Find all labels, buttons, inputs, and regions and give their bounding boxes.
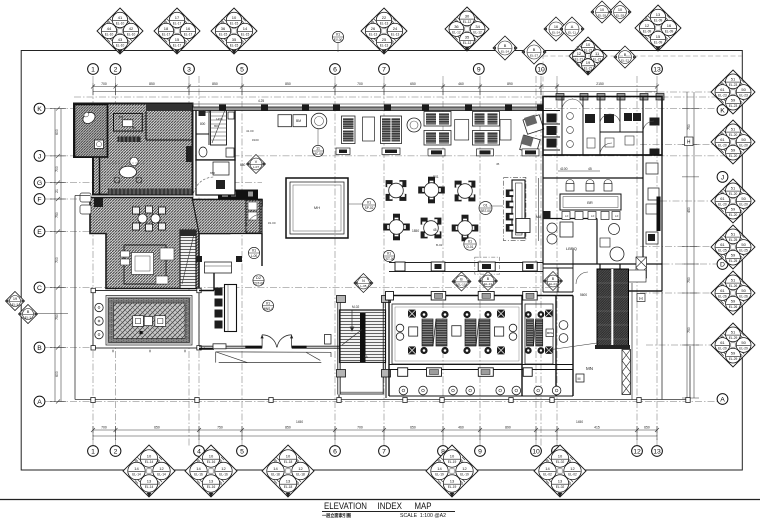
svg-text:EL-01: EL-01 [549,282,557,286]
extra small annotations [210,117,500,247]
svg-text:650: 650 [210,171,215,175]
svg-text:EL-10: EL-10 [127,32,136,36]
svg-text:EL-29: EL-29 [729,336,738,340]
svg-text:61: 61 [720,196,725,201]
pool room columns [91,288,201,350]
hall north wall mullions [219,105,543,112]
svg-text:13: 13 [286,479,291,484]
svg-text:EL-09: EL-09 [654,18,663,22]
svg-text:B: B [504,44,507,48]
svg-text:12: 12 [577,51,582,56]
svg-text:11: 11 [316,146,320,151]
svg-text:EL-24: EL-24 [552,30,560,34]
svg-text:EL-14: EL-14 [145,485,154,489]
window seat group west [278,113,327,129]
right wing walls [600,264,662,291]
svg-text:51: 51 [731,330,736,335]
svg-text:EL-18: EL-18 [284,485,293,489]
svg-text:EL-15: EL-15 [230,43,239,47]
left marker leader [37,313,68,315]
svg-text:18: 18 [164,26,169,31]
svg-text:EL-21: EL-21 [593,57,602,61]
svg-text:EL-02: EL-02 [568,472,577,476]
cafe table at 431,228 [421,218,442,239]
suite mid room [196,160,235,195]
svg-text:36: 36 [454,24,459,29]
pool room outer wall [93,291,199,349]
svg-text:EL-13: EL-13 [380,21,389,25]
marker EY-00 leader [337,43,339,52]
svg-text:750: 750 [687,327,691,333]
svg-text:EL-16: EL-16 [219,472,228,476]
svg-text:L-00: L-00 [251,254,258,258]
marker SBT-00 cafe [479,202,492,215]
title block separator line [0,499,760,501]
svg-text:51: 51 [731,232,736,237]
H box markers [637,137,693,302]
svg-text:17: 17 [175,15,180,20]
hall table dark west [382,148,400,155]
svg-text:1450: 1450 [203,110,210,114]
svg-text:59: 59 [731,207,736,212]
meeting west casing line [538,178,540,241]
svg-text:N: N [362,279,365,283]
svg-text:LF: LF [615,214,619,218]
grid bubble 5 top [237,64,248,75]
svg-text:600: 600 [55,371,59,377]
svg-text:700: 700 [101,426,107,430]
marker CST-00 lobby [253,275,264,286]
svg-text:12: 12 [570,466,575,471]
svg-text:EL-28: EL-28 [598,13,606,17]
bar counter [512,180,525,238]
grid bubble E left [34,226,45,237]
svg-text:14: 14 [273,466,278,471]
svg-text:ELEVATION: ELEVATION [324,501,367,511]
restroom toilets mid [585,113,641,123]
svg-text:EL-10: EL-10 [116,43,125,47]
svg-text:INDEX: INDEX [378,501,403,511]
svg-text:800: 800 [214,124,219,128]
svg-text:EL-17: EL-17 [162,32,171,36]
svg-text:460: 460 [458,426,464,430]
svg-text:41: 41 [118,15,123,20]
svg-text:EL-2: EL-2 [25,315,32,319]
marker EL-27 top [522,40,546,64]
lounge vertical sofas west [336,116,421,155]
svg-text:EL-21: EL-21 [575,57,584,61]
svg-text:EL-17: EL-17 [173,21,182,25]
svg-text:D-01: D-01 [467,245,474,249]
svg-text:6: 6 [333,449,337,456]
svg-text:MPE: MPE [547,331,554,335]
svg-text:59: 59 [731,351,736,356]
grid bubble D right [717,259,728,270]
MA cabinet [543,211,551,219]
svg-text:850: 850 [285,82,291,86]
svg-text:14: 14 [545,466,550,471]
marker EL-28a top [591,1,613,23]
svg-text:890: 890 [507,82,513,86]
svg-text:13: 13 [450,479,455,484]
svg-text:1450: 1450 [296,420,303,424]
svg-text:EL-20: EL-20 [729,154,738,158]
terrace lattice small [636,257,647,278]
svg-text:H: H [687,140,691,146]
svg-text:EL-29: EL-29 [739,346,748,350]
svg-text:15: 15 [175,37,180,42]
svg-text:B: B [624,53,627,57]
svg-text:700: 700 [55,257,59,263]
svg-text:45: 45 [496,162,500,166]
svg-text:WNS-0: WNS-0 [263,307,273,311]
west plaza edge [75,196,90,400]
svg-text:K: K [37,106,42,113]
cluster EL-19 bottom4 [426,445,478,497]
svg-text:EL-15: EL-15 [241,32,250,36]
svg-text:61: 61 [720,137,725,142]
bar stools [506,190,514,232]
svg-text:K: K [720,108,725,115]
svg-text:EL-22: EL-22 [621,58,629,62]
svg-text:EL-27: EL-27 [530,53,538,57]
svg-text:750: 750 [55,212,59,218]
svg-text:26: 26 [371,26,376,31]
svg-text:B-02: B-02 [436,243,443,247]
grid bubble 11 bottom [552,446,563,457]
svg-text:4: 4 [197,449,201,456]
marker SP-02 square [363,199,376,212]
cluster EL-20 right2 [711,120,755,164]
svg-text:EL-23: EL-23 [729,83,738,87]
svg-text:EL-26: EL-26 [739,294,748,298]
marker L-05 lobby north [354,274,373,293]
svg-text:01: 01 [367,200,371,205]
grid bubble 7 top [379,64,390,75]
svg-text:12: 12 [221,466,226,471]
svg-text:14: 14 [437,466,442,471]
svg-text:61: 61 [720,87,725,92]
svg-text:19: 19 [586,60,591,65]
right wing lower room [600,238,610,247]
cluster EL-10 top1 [97,8,143,54]
svg-text:SBT-00: SBT-00 [480,209,491,213]
svg-text:EL-13: EL-13 [380,43,389,47]
svg-text:3: 3 [187,67,191,74]
grid bubble J left [34,151,45,162]
svg-text:EL-12: EL-12 [473,30,482,34]
svg-text:850: 850 [149,82,155,86]
suite dining set [133,206,166,231]
svg-text:LF: LF [591,214,595,218]
svg-text:B01: B01 [433,175,439,179]
svg-text:15: 15 [656,34,661,39]
svg-text:415: 415 [594,426,600,430]
banquet white tables [409,326,504,336]
meeting chairs bottom [562,212,620,220]
feature square carpet [286,178,348,238]
svg-text:EL-23: EL-23 [729,104,738,108]
svg-text:650: 650 [644,426,650,430]
svg-text:B: B [533,48,536,52]
grid bubble C left [34,282,45,293]
svg-text:J: J [721,174,724,181]
grid bubble A right [717,394,728,405]
svg-text:CST-00: CST-00 [384,257,395,261]
site boundary line south [75,291,690,400]
pool herringbone carpet [114,303,186,339]
svg-text:50: 50 [741,288,746,293]
svg-text:EL-25: EL-25 [739,248,748,252]
stair well walls [338,302,386,395]
cluster EL-13 top4 [361,8,407,54]
cluster EL-20 right3 [711,179,755,223]
pool curtain ticks [113,350,185,353]
lattice column below pavilion [622,350,631,395]
svg-text:CST-00: CST-00 [253,282,264,286]
svg-text:A: A [571,25,574,29]
grid bubble 13 bottom [652,446,663,457]
hall door arc west [246,214,262,229]
svg-text:EL-09: EL-09 [654,40,663,44]
grid bubble G left [34,177,45,188]
suite lower sofa [160,248,174,260]
suite carpet border band [108,189,192,195]
svg-text:EL-11: EL-11 [568,30,576,34]
suite wall spine [100,105,108,196]
grid bubble 10 top [536,64,547,75]
svg-text:SCALE 1:100 @A2: SCALE 1:100 @A2 [400,513,446,519]
svg-text:EL-28: EL-28 [616,13,624,17]
hall north wall [193,103,544,105]
svg-text:01: 01 [336,32,340,37]
marker L-07 suite corridor [247,155,266,174]
terrace chairs row [399,386,561,395]
svg-text:750: 750 [217,426,223,430]
cluster EL-15 top3 [211,8,257,54]
pool dark spot [140,331,143,334]
svg-text:700: 700 [357,82,363,86]
svg-text:45: 45 [588,167,592,171]
grid bubble 8 bottom [438,446,449,457]
svg-text:MA: MA [536,215,542,219]
svg-text:4100: 4100 [560,167,568,171]
grid bubble 13 top [652,64,663,75]
svg-text:10: 10 [286,454,291,459]
svg-text:9: 9 [478,449,482,456]
svg-text:51: 51 [731,186,736,191]
marker WNS-0 lobby [262,300,273,311]
drawing border frame [21,51,742,471]
svg-text:25: 25 [382,37,387,42]
svg-text:59: 59 [731,299,736,304]
dark pavilion twin block [595,269,630,349]
svg-text:1: 1 [91,449,95,456]
svg-text:16: 16 [554,25,558,29]
restroom basins [567,113,634,148]
svg-text:2: 2 [114,67,118,74]
cluster EL-18 bottom3 [262,445,314,497]
svg-text:MH: MH [314,205,320,210]
svg-text:16: 16 [186,26,191,31]
grid bubble 10 bottom [531,446,542,457]
svg-text:10: 10 [147,454,152,459]
svg-text:10: 10 [450,454,455,459]
reception desk [215,285,237,332]
svg-text:EL-16: EL-16 [207,460,216,464]
svg-text:SP-02: SP-02 [365,206,374,210]
svg-text:35: 35 [232,37,237,42]
svg-text:EL-19: EL-19 [460,472,469,476]
lobby south wall with entrance [199,346,339,348]
svg-text:450: 450 [687,207,691,213]
svg-text:EL-16: EL-16 [194,472,203,476]
meeting table [560,194,621,210]
svg-text:19: 19 [13,297,17,301]
pantry right cell [246,200,260,233]
marker EY-00 top [332,31,343,42]
svg-text:EL-18: EL-18 [296,472,305,476]
svg-text:D2: D2 [256,275,261,280]
svg-text:LBRQ: LBRQ [566,246,577,251]
restroom door arcs [562,99,654,155]
suite bench [118,137,141,143]
suite lower bedroom [121,245,169,284]
svg-text:L-05: L-05 [360,284,366,288]
right wing bottom rooms [600,269,662,327]
banquet sofa group mid [463,311,491,354]
svg-text:2: 2 [114,449,118,456]
svg-text:1850: 1850 [412,229,419,233]
svg-text:59: 59 [731,98,736,103]
suite inner partition walls [108,111,192,195]
marker EL-22 top [614,46,636,68]
banquet sofa group west [420,311,448,354]
svg-text:EL-25: EL-25 [718,248,727,252]
svg-text:EL-20: EL-20 [718,202,727,206]
svg-text:50: 50 [741,242,746,247]
svg-text:EL-17: EL-17 [173,43,182,47]
svg-text:1: 1 [91,67,95,74]
svg-text:5: 5 [240,67,244,74]
cluster EL-12 top5 [445,7,489,51]
svg-text:14: 14 [243,26,248,31]
svg-text:EL-25: EL-25 [729,238,738,242]
svg-text:41.00: 41.00 [246,129,254,133]
svg-text:10: 10 [558,454,563,459]
svg-text:59: 59 [731,253,736,258]
meeting room walls [543,97,662,265]
svg-text:50: 50 [741,340,746,345]
svg-text:BR: BR [587,200,593,205]
svg-text:#100: #100 [252,138,259,142]
svg-text:14: 14 [134,466,139,471]
svg-text:2150: 2150 [596,82,604,86]
svg-text:EL-20: EL-20 [739,202,748,206]
svg-text:12: 12 [633,449,641,456]
grid bubble K left [34,103,45,114]
svg-text:12: 12 [298,466,303,471]
cluster EL-02 bottom5 [534,445,586,497]
pool white inset blocks [133,316,166,327]
marker EL-24b top [544,17,568,41]
marker EL-2 left b [19,305,38,324]
svg-text:34: 34 [475,24,480,29]
svg-text:4.25: 4.25 [258,99,264,103]
reception bench upper [196,256,242,273]
banquet private room border [525,304,553,364]
cluster EL-26 right5 [711,271,755,315]
cluster EL-17 top2 [154,8,200,54]
pool brick border [109,298,190,343]
svg-text:01: 01 [483,203,487,208]
svg-text:800: 800 [200,122,206,126]
lobby walls [199,234,262,350]
svg-text:EL-19: EL-19 [448,460,457,464]
svg-text:EL-09: EL-09 [643,29,652,33]
svg-text:7: 7 [382,67,386,74]
banquet corner card tables [408,310,553,355]
svg-text:EL-18: EL-18 [271,472,280,476]
cluster EL-09 top7 [635,5,681,51]
svg-text:650: 650 [410,82,416,86]
svg-text:EL-15: EL-15 [230,21,239,25]
terrace circles west of pavilion [559,321,568,343]
svg-text:850: 850 [212,82,218,86]
svg-text:10: 10 [586,42,591,47]
banquet sofa group private [525,311,544,354]
svg-text:EL-09: EL-09 [665,29,674,33]
right wing furnishings upper [646,163,659,214]
svg-text:EL-02: EL-02 [556,460,565,464]
restroom block walls [543,97,662,156]
corridor door arc [193,177,214,197]
cafe table at 396.5,227 [383,214,410,241]
svg-text:EL-10: EL-10 [105,32,114,36]
svg-text:30: 30 [465,14,470,19]
marker SP-02 leader [348,203,362,205]
scope step line top right [543,56,742,97]
grid bubble 2 top [110,64,121,75]
banquet columns bottom [398,368,533,377]
svg-text:750: 750 [687,124,691,130]
terrace ramp diagonal [548,343,597,350]
cafe table at 465,228 [452,215,479,242]
svg-text:EL-20: EL-20 [729,213,738,217]
svg-text:一层立面索引图: 一层立面索引图 [322,512,351,519]
svg-text:EL-26: EL-26 [729,284,738,288]
svg-text:EL-19: EL-19 [448,485,457,489]
marker CST-00 south [383,250,394,261]
restroom far right fixtures [650,118,660,156]
svg-text:EL-17: EL-17 [184,32,193,36]
cluster EL-14 bottom1 [123,445,175,497]
svg-text:EL-23: EL-23 [718,93,727,97]
svg-text:50: 50 [741,137,746,142]
marker EL-13 banquet [479,272,498,291]
svg-text:1450: 1450 [576,420,583,424]
lounge sofa pair east [473,112,500,156]
suite sofa oval [108,157,145,183]
svg-text:22: 22 [382,15,387,20]
pavilion east terrace line [631,283,633,400]
lounge armchairs east [520,115,544,156]
svg-text:B: B [27,310,30,314]
svg-text:A: A [37,399,42,406]
marker EL-28b top [609,1,631,23]
MPE box private [546,329,554,337]
bar scope dashed box [503,177,526,240]
